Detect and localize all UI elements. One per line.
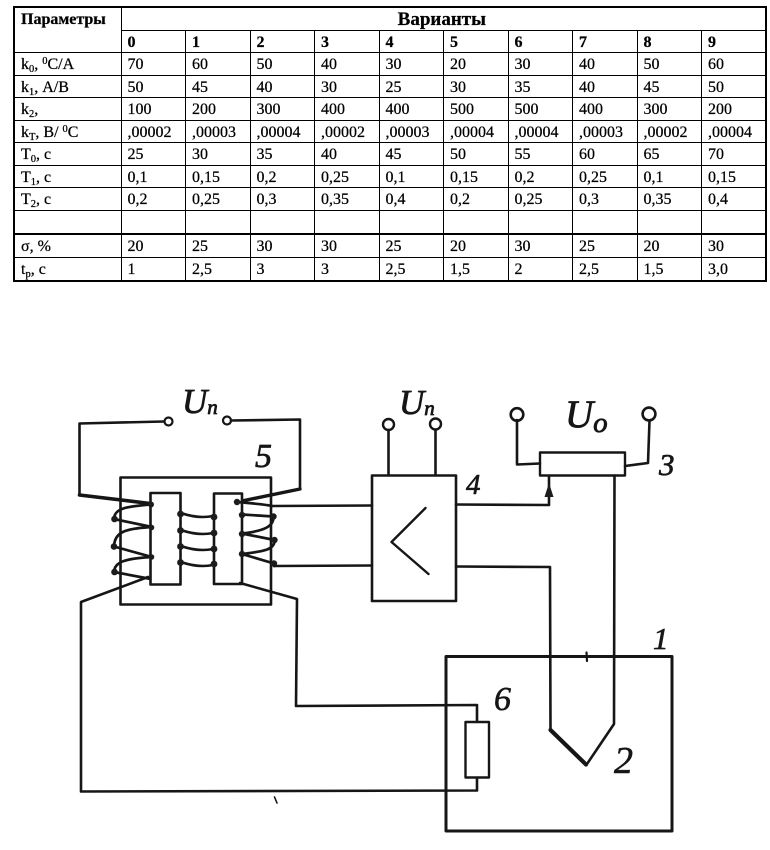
svg-text:2: 2 [614, 740, 633, 782]
svg-text:6: 6 [494, 681, 511, 718]
svg-text:5: 5 [255, 438, 272, 475]
svg-text:1: 1 [653, 621, 669, 656]
svg-text:3: 3 [658, 447, 675, 482]
svg-text:4: 4 [466, 469, 481, 501]
svg-text:Uп: Uп [182, 382, 218, 421]
svg-text:Uо: Uо [565, 393, 608, 439]
svg-text:Uп: Uп [399, 383, 435, 422]
